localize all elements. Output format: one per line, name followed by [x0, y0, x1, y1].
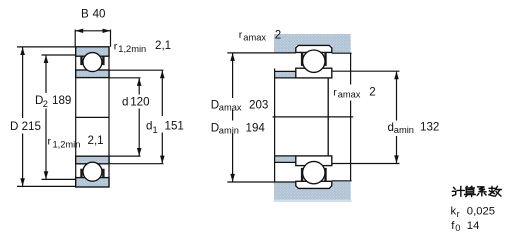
svg-text:amin: amin: [219, 126, 239, 136]
hanzi shu (数): [489, 186, 495, 196]
cage bars right bottom: [301, 168, 303, 182]
svg-text:203: 203: [249, 98, 268, 111]
shaft shoulder face: [274, 69, 276, 183]
sleeve front edge between sections: [327, 78, 329, 156]
D2 dimension: [42, 55, 76, 179]
svg-text:amax: amax: [338, 90, 361, 100]
svg-text:2: 2: [43, 99, 48, 109]
right bearing bottom section outer ring: [296, 181, 332, 188]
svg-text:r: r: [457, 209, 460, 219]
svg-text:189: 189: [52, 94, 71, 107]
hanzi xi (系): [477, 187, 486, 196]
ball right bottom: [303, 161, 325, 183]
sleeve bottom edge / da ext bottom: [329, 163, 399, 165]
sleeve end face lower: [350, 101, 352, 181]
D dimension: [17, 47, 76, 187]
svg-text:14: 14: [467, 220, 480, 232]
B extension line right: [110, 30, 112, 47]
ball right top: [303, 50, 325, 72]
d1 dimension: [109, 70, 164, 164]
计算系数 drawn as paths: [452, 186, 501, 196]
shaft surface top: [275, 77, 296, 79]
svg-text:r: r: [239, 29, 243, 41]
outer ring bottom section: [76, 178, 109, 187]
svg-text:d: d: [146, 120, 152, 133]
B extension line left: [74, 30, 76, 47]
d dimension: [109, 78, 141, 156]
svg-text:0,025: 0,025: [467, 205, 495, 217]
outer ring top section: [76, 47, 109, 56]
hanzi ji (计): [452, 187, 456, 195]
svg-text:1,2min: 1,2min: [118, 44, 146, 54]
cage bars bottom section: [80, 169, 82, 178]
right bearing top section inner ring: [296, 68, 332, 78]
housing shoulder line top right: [332, 52, 352, 54]
ball bottom section: [83, 162, 102, 181]
cage bars right top: [301, 52, 303, 66]
shaft shoulder top edge: [275, 70, 296, 72]
svg-text:120: 120: [130, 95, 149, 108]
svg-text:2,1: 2,1: [155, 39, 171, 52]
sleeve end face upper: [350, 53, 352, 84]
svg-text:0: 0: [455, 223, 460, 233]
cage bars top section: [80, 56, 82, 65]
svg-text:132: 132: [420, 120, 439, 133]
Da dimension line: [232, 53, 234, 181]
right bearing bottom section inner ring: [296, 156, 332, 166]
svg-text:2,1: 2,1: [88, 134, 104, 147]
ball top section: [83, 53, 102, 72]
svg-text:1,2min: 1,2min: [53, 139, 81, 149]
axis centerline right figure: [273, 116, 354, 118]
inner ring bottom section: [76, 156, 109, 164]
centerline left bearing: [76, 116, 109, 118]
housing top band: [274, 34, 351, 53]
B arrow right: [103, 29, 111, 33]
svg-text:r: r: [333, 86, 337, 98]
Da line bottom: [227, 181, 295, 183]
housing shoulder line bottom right: [332, 180, 352, 182]
shaft surface bottom: [275, 155, 296, 157]
bearing left face line: [75, 47, 77, 187]
svg-text:amax: amax: [219, 103, 242, 113]
bearing right face line: [108, 47, 110, 187]
svg-text:2: 2: [275, 28, 281, 41]
damin dimension line: [396, 72, 398, 164]
svg-text:D 215: D 215: [10, 120, 41, 133]
Da line top: [227, 52, 295, 54]
sleeve top edge / da ext top: [329, 70, 399, 72]
svg-text:40: 40: [93, 8, 106, 21]
shaft shoulder top-left: [275, 71, 296, 78]
svg-text:2: 2: [369, 86, 375, 99]
right bearing top section outer ring: [296, 45, 332, 52]
inner ring top section: [76, 70, 109, 78]
svg-text:r: r: [48, 136, 52, 148]
svg-text:r: r: [114, 41, 118, 53]
B arrow left: [75, 29, 83, 33]
svg-text:amin: amin: [394, 125, 414, 135]
B dimension line: [75, 30, 110, 32]
shaft shoulder bottom edge: [275, 161, 296, 163]
svg-text:d: d: [122, 95, 128, 108]
housing bottom band fade edge: [274, 200, 352, 202]
svg-text:151: 151: [165, 120, 184, 133]
svg-text:194: 194: [246, 121, 266, 134]
svg-text:1: 1: [153, 125, 158, 135]
housing bottom band: [274, 181, 351, 200]
shaft shoulder bottom-left: [275, 156, 296, 163]
hanzi suan (算): [466, 186, 475, 188]
svg-text:B: B: [81, 8, 89, 21]
svg-text:k: k: [451, 205, 457, 217]
svg-text:amax: amax: [243, 32, 266, 42]
